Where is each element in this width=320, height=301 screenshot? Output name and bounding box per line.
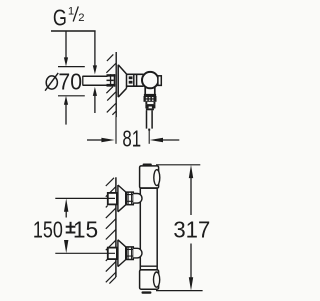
label G1/2 — [53, 5, 85, 31]
connector ring lines — [134, 74, 137, 86]
outlet axis extension line — [148, 130, 150, 144]
svg-text:15: 15 — [73, 216, 98, 242]
bar top cap raised bump — [143, 164, 152, 167]
knurled nut — [144, 96, 157, 102]
fraction slash of G1/2 — [73, 6, 78, 21]
dim 317 lower line — [190, 244, 192, 279]
dim 150 top extension line — [55, 197, 115, 199]
outlet upper section side bars — [145, 102, 147, 104]
bottom cap foot bump — [142, 291, 152, 293]
dim 81 right tail — [163, 139, 179, 141]
dim 81 left arrow — [101, 138, 114, 142]
bottom inlet nut — [126, 247, 133, 260]
tail below pipe (G1/2) — [94, 95, 96, 113]
dim 150 upper arrow — [64, 198, 68, 211]
bar bottom cap — [140, 270, 159, 289]
bottom cap division line — [140, 269, 158, 271]
bottom inlet dome — [133, 248, 142, 258]
top cap ellipse — [154, 170, 160, 186]
svg-text:150: 150 — [33, 216, 63, 242]
arrow down to pipe top — [93, 65, 97, 74]
outlet pipe — [147, 110, 153, 128]
wall hatch (front view) — [106, 178, 116, 284]
svg-text:81: 81 — [122, 125, 141, 151]
wall line (top view) — [115, 52, 117, 117]
escutcheon cone (top view) — [118, 65, 126, 97]
dia70 dim upper line — [65, 31, 67, 59]
bottom inlet wall box — [108, 248, 117, 260]
top inlet escutcheon — [118, 185, 126, 212]
bottom cap ellipse — [154, 272, 160, 287]
outlet band — [145, 104, 155, 106]
arrow down to dia70 top ext — [64, 57, 68, 66]
arrow up to pipe bottom — [93, 87, 97, 96]
label dia70 — [46, 76, 57, 89]
tube bottom ring line — [140, 265, 157, 267]
dia70 bottom extension line — [58, 95, 85, 97]
bar top cap — [140, 166, 159, 188]
dim 317 lower arrow — [189, 277, 193, 290]
dim 81 right arrow — [150, 138, 163, 142]
svg-text:70: 70 — [58, 68, 82, 94]
top inlet dome — [133, 194, 142, 204]
dim 150 lower line — [65, 241, 67, 247]
dim 317 top extension line — [156, 164, 200, 166]
dia70 dim lower tail — [65, 104, 67, 125]
valve body circle — [142, 72, 158, 88]
outlet pipe tip — [148, 129, 150, 131]
outlet notch row — [145, 107, 148, 109]
dim 150 upper line — [65, 211, 67, 218]
dim 317 upper arrow — [189, 165, 193, 178]
svg-text:317: 317 — [173, 216, 210, 242]
bottom inlet escutcheon — [118, 240, 126, 267]
connector cylinder (top view) — [127, 74, 144, 86]
top cap division line — [140, 187, 158, 189]
leader underline of G1/2 — [51, 30, 96, 32]
wall hatch (top view) — [106, 54, 116, 114]
elbow flange band — [144, 94, 156, 96]
dim 150 bottom extension line — [55, 252, 115, 254]
leader drop line G1/2 — [94, 31, 96, 66]
elbow neck below valve — [145, 87, 155, 95]
top inlet wall box — [108, 193, 117, 205]
wall line (front view) — [115, 177, 117, 277]
supply pipe (top view) — [83, 76, 108, 85]
dia70 top extension line — [58, 66, 85, 68]
svg-text:G: G — [53, 5, 67, 31]
handle end cap (right of circle) — [158, 76, 161, 86]
dim 81 line left tail — [87, 139, 102, 141]
plus-minus sign of 150+-15 — [66, 222, 76, 233]
dim 150 lower arrow — [64, 240, 68, 253]
knurl white dots — [146, 97, 154, 101]
in-wall fitting (top view) — [107, 74, 116, 86]
svg-text:1: 1 — [68, 5, 74, 17]
arrow up to dia70 bottom ext — [64, 96, 68, 105]
pipe left end cap — [82, 76, 84, 85]
dim 317 bottom extension line — [156, 290, 203, 292]
top inlet nut lines — [126, 192, 133, 205]
top inlet nut — [126, 192, 133, 205]
svg-text:2: 2 — [78, 12, 84, 24]
outlet band 2 — [146, 108, 154, 110]
wall extension line down to 81 dim — [115, 117, 117, 144]
bottom inlet nut lines — [126, 247, 133, 260]
dim 317 upper line — [190, 177, 192, 215]
bar tube — [140, 188, 157, 270]
connector groove marks — [129, 76, 133, 79]
